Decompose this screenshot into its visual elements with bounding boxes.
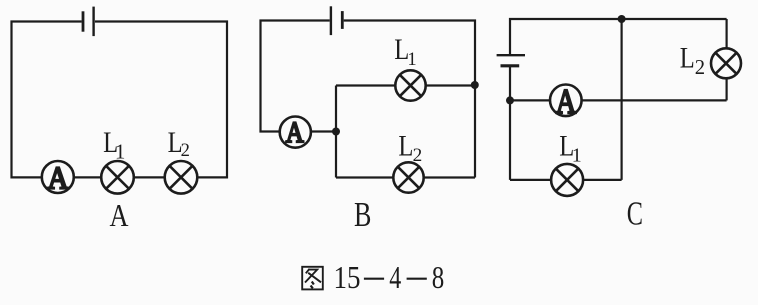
node B split junction dot [332,128,340,136]
label L1 (circuit A) [103,126,125,163]
wire C top run [510,19,727,54]
wire B top-right and right side [344,21,475,178]
wire B top branch left [336,84,396,86]
label L2 (circuit A) [168,126,190,161]
svg-text:1: 1 [407,49,416,70]
svg-text:2: 2 [181,140,190,161]
battery BT2 short plate (negative) [341,11,344,29]
wire C right vertical lower [725,78,727,101]
caption dash 1 [364,278,384,280]
caption character tu (figure) drawn as strokes [302,267,323,290]
wire B bottom branch left [336,176,393,178]
wire A L1-to-L2 [134,176,165,178]
wire C middle vertical [620,19,622,180]
node C left junction dot [506,96,514,104]
svg-text:C: C [627,196,643,233]
wire B bottom branch right [424,176,475,178]
ammeter A1 circle [42,161,74,193]
svg-text:4: 4 [389,259,401,295]
svg-text:L: L [398,129,413,162]
node B right junction dot [471,81,479,89]
battery BT1 short plate (negative) [82,11,85,31]
battery BT2 long plate (positive) [330,6,332,35]
label L1 (circuit B) [394,33,416,70]
svg-text:1: 1 [115,139,126,163]
lamp L2 (circuit A) [165,161,198,194]
wire C right vertical upper [725,19,727,49]
lamp L2 (circuit B) [393,162,423,192]
svg-text:1: 1 [572,145,582,167]
svg-text:8: 8 [432,259,445,295]
wire C ammeter row right [582,99,727,101]
wire B top branch right [426,84,475,86]
svg-text:2: 2 [695,57,705,79]
wire A top-left and left side [12,22,82,178]
svg-text:2: 2 [413,145,423,166]
ammeter A3 circle [550,85,582,117]
wire C bottom left [510,179,552,181]
wire C bottom right [583,179,621,181]
svg-text:A: A [286,117,305,149]
svg-text:A: A [110,198,129,233]
lamp L2 (circuit C) [711,48,741,78]
wire C ammeter row left [510,99,550,101]
node C top junction dot [618,15,626,23]
svg-text:A: A [48,161,69,196]
svg-text:L: L [680,42,695,75]
battery BT3 short plate (negative) [501,64,520,67]
svg-text:B: B [354,195,371,234]
wire A ammeter-to-L1 [74,176,101,178]
svg-text:15: 15 [334,259,361,295]
lamp L1 (circuit C) [551,164,583,196]
label L2 (circuit B) [398,129,422,166]
caption dash 2 [407,278,427,280]
ammeter A2 circle [280,117,311,148]
battery BT1 long plate (positive) [92,7,94,36]
svg-text:A: A [556,82,577,121]
label L1 (circuit C) [559,129,581,166]
lamp L1 (circuit B) [395,70,425,100]
wire C left side below battery [509,67,511,180]
wire B ammeter-to-node [311,130,336,132]
battery BT3 long plate (positive) [497,54,525,56]
label L2 (circuit C) [680,42,705,79]
lamp L1 (circuit A) [101,161,134,194]
wire B branch vertical [335,86,337,178]
wire B left side and ammeter feed [261,21,330,132]
wire A top-right and right side [95,22,227,178]
